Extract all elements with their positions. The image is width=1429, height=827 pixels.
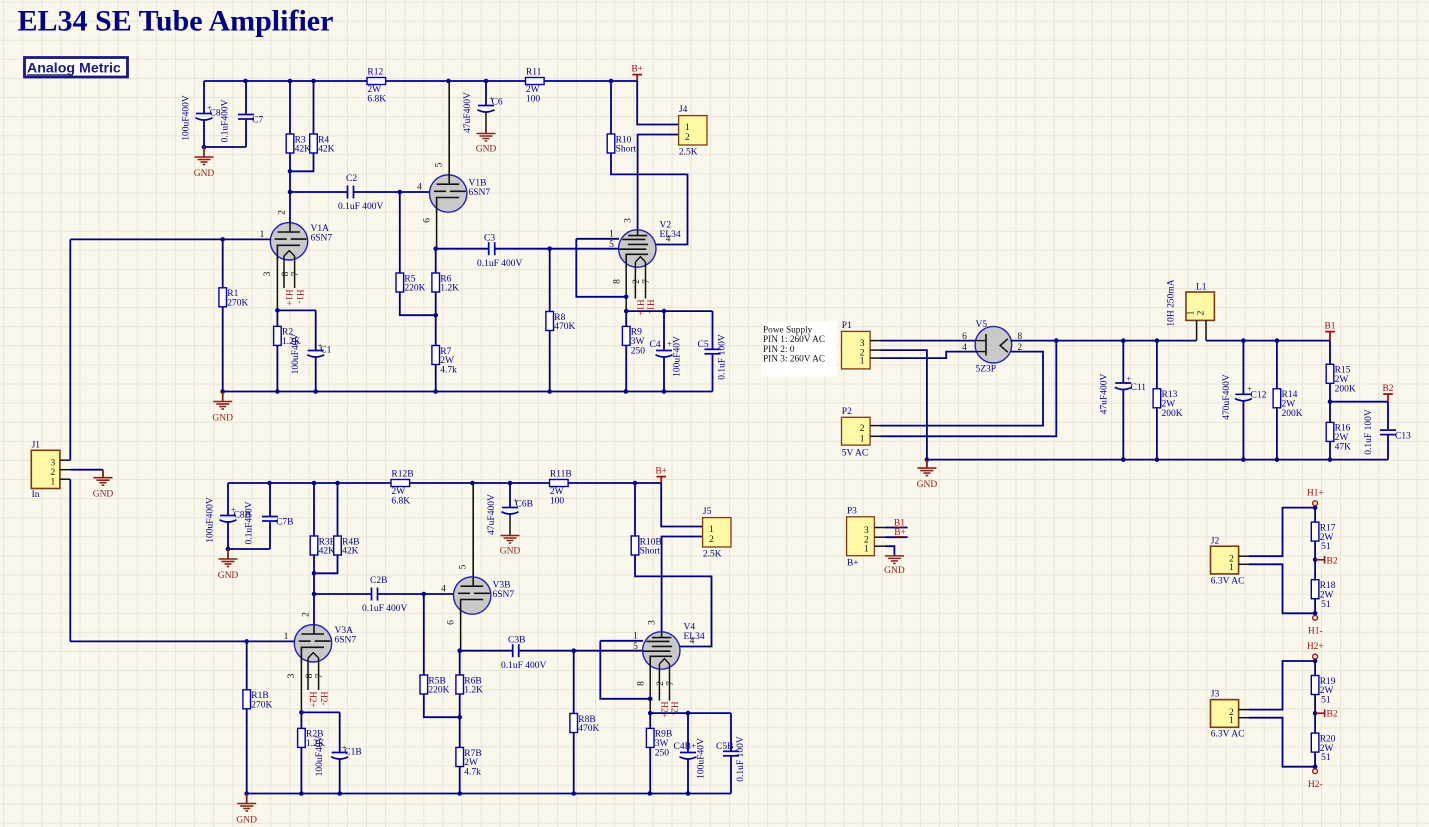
wire [423,594,425,675]
svg-text:+: + [691,741,696,751]
svg-text:C12: C12 [1251,391,1267,401]
svg-text:C6B: C6B [516,500,533,510]
wire [1276,341,1278,389]
svg-text:Short: Short [640,547,661,557]
V2 cathode pin 8 [625,265,627,312]
svg-text:C4B: C4B [674,742,691,752]
svg-text:100uF40V: 100uF40V [673,336,683,377]
svg-text:4: 4 [962,343,967,353]
junction [1121,338,1126,343]
svg-text:+: + [1247,384,1252,394]
resistor R2 [274,326,301,347]
svg-text:EL34 SE Tube Amplifier: EL34 SE Tube Amplifier [18,5,334,38]
junction [484,79,489,84]
junction [1328,457,1333,462]
V1A internals [275,223,307,260]
svg-text:6.3V AC: 6.3V AC [1211,576,1245,586]
wire [1329,383,1331,401]
svg-text:42K: 42K [342,547,359,557]
svg-text:7: 7 [642,279,652,284]
wire rail after choke [1206,340,1330,342]
svg-text:H1-: H1- [295,290,305,304]
resistor R16 [1326,422,1351,452]
power port B2 tap at J3 [1315,709,1338,719]
junction [275,389,280,394]
wire [337,483,339,536]
svg-text:+: + [207,103,212,113]
svg-text:3: 3 [860,339,865,349]
wire [435,249,437,273]
wire [573,651,575,714]
svg-text:200K: 200K [1282,409,1303,419]
wire [228,548,270,550]
wire B+ to J5 pin 1 [661,483,702,527]
svg-text:42K: 42K [319,547,336,557]
wire [519,650,643,652]
wire J5 pin 2 to V4 pin 3 [662,537,703,632]
svg-text:4: 4 [417,183,422,193]
wire [246,641,248,689]
junction [267,481,272,486]
svg-text:2: 2 [1017,343,1022,353]
wire [204,146,246,148]
svg-text:4: 4 [666,235,671,245]
svg-text:0.1uF 400V: 0.1uF 400V [362,604,408,614]
svg-text:3: 3 [287,673,297,678]
wire [203,81,205,113]
svg-text:J3: J3 [1211,690,1220,700]
svg-text:1.2K: 1.2K [440,284,459,294]
svg-text:GND: GND [218,571,239,581]
junction [571,648,576,653]
svg-text:51: 51 [1321,542,1331,552]
junction [433,313,438,318]
svg-text:8: 8 [305,673,315,678]
junction [1155,338,1160,343]
svg-text:4.7k: 4.7k [464,768,481,778]
J2 pin stubs [1239,556,1249,564]
Analog Metric box [25,58,128,78]
junction [457,791,462,796]
junction [337,791,342,796]
wire P1 pin 2 to ground rail [881,350,927,460]
svg-text:C5B: C5B [716,742,733,752]
svg-text:42K: 42K [318,145,335,155]
svg-text:C4: C4 [650,340,661,350]
wire [314,555,338,573]
tube V1B 6SN7 [430,175,491,212]
svg-text:100: 100 [526,95,541,105]
svg-text:8: 8 [637,681,647,686]
ground [476,134,497,155]
wire [354,191,430,193]
V2 internals [619,230,648,267]
junction [433,246,438,251]
V1A heater pins [284,256,295,288]
svg-text:220K: 220K [428,686,449,696]
resistor R8B [570,714,600,735]
svg-text:In: In [32,490,40,500]
svg-text:0.1uF 400V: 0.1uF 400V [338,202,384,212]
wire [1329,341,1331,365]
wire [424,694,460,717]
svg-text:200K: 200K [1335,384,1356,394]
junction [243,79,248,84]
capacitor C4 [656,311,673,391]
junction [1241,338,1246,343]
junction [925,457,930,462]
svg-text:Analog Metric: Analog Metric [27,61,121,77]
wire [1314,752,1316,767]
power port B2 [1382,384,1393,402]
junction [288,169,293,174]
wire J2 pin 1 to H1- [1249,564,1315,613]
svg-text:5V AC: 5V AC [842,449,869,459]
svg-text:220K: 220K [404,284,425,294]
resistor R8 [546,312,576,333]
wire [313,81,315,134]
svg-text:B+: B+ [655,466,667,476]
connector P2 [842,407,871,445]
junction [422,592,427,597]
wire J2 pin 2 to H1+ [1249,508,1315,557]
svg-text:1: 1 [685,123,690,133]
svg-text:J4: J4 [679,105,688,115]
V4 internals [643,632,672,669]
svg-text:2: 2 [685,133,690,143]
junction [288,79,293,84]
svg-text:C7B: C7B [276,518,293,528]
wire [435,365,437,392]
wire [1314,661,1316,676]
svg-text:C11: C11 [1131,383,1147,393]
svg-text:C1B: C1B [344,748,361,758]
tube V3B 6SN7 [454,577,515,614]
svg-text:0.1uF 400V: 0.1uF 400V [501,661,547,671]
junction [1155,457,1160,462]
svg-text:GND: GND [236,816,257,826]
wire [276,345,278,391]
svg-text:Powe Supply: Powe Supply [763,326,813,336]
wire [459,694,461,748]
wire [399,192,401,273]
capacitor C7 [238,81,254,147]
svg-text:4: 4 [441,585,446,595]
svg-text:B2: B2 [1327,710,1338,720]
L1 pin stubs [1197,320,1206,340]
svg-text:0.1uF 400V: 0.1uF 400V [477,259,523,269]
svg-text:5: 5 [434,162,444,167]
svg-text:3: 3 [51,459,56,469]
junction [1241,457,1246,462]
svg-text:100uF40V: 100uF40V [291,334,301,375]
ground [218,549,239,581]
wire [227,483,229,515]
svg-text:1: 1 [51,478,56,488]
resistor R7 [432,346,457,376]
capacitor C11 [1115,341,1132,460]
junction [624,295,629,300]
capacitor C1 [307,310,324,391]
svg-text:C13: C13 [1395,432,1411,442]
connector J2 [1211,536,1245,586]
V3A cathode pin 3 [300,660,302,712]
capacitor C8 [196,113,213,147]
svg-text:C5: C5 [698,340,709,350]
wire [509,483,511,507]
wire [460,650,513,652]
junction [1328,399,1333,404]
port H1- [1308,615,1323,636]
svg-text:P3: P3 [847,506,857,516]
V4 cathode pin 8 [649,667,651,714]
svg-text:5: 5 [458,564,468,569]
wire [1314,508,1316,522]
wire to B2 [1330,401,1388,403]
wire ground bus [247,793,731,795]
junction [202,145,207,150]
junction [275,308,280,313]
resistor R10B [631,536,662,557]
J3 pin stubs [1239,710,1249,718]
wire V4 pin 1 [600,640,643,642]
wire [495,248,619,250]
svg-text:2: 2 [277,210,287,215]
svg-text:H1+: H1+ [636,300,646,316]
junction [547,389,552,394]
svg-text:8: 8 [613,279,623,284]
resistor R9B [646,728,672,758]
svg-text:1: 1 [1229,563,1234,573]
resistor R5B [420,675,450,696]
svg-text:V5: V5 [976,320,988,330]
wire [222,307,224,392]
power port B+ [655,466,667,483]
wire [222,239,224,287]
junction [1313,611,1318,616]
port H2- [1308,769,1323,790]
svg-text:B+: B+ [631,64,643,74]
junction [547,246,552,251]
ground [236,794,257,826]
capacitor C5 [705,311,721,391]
junction [1275,457,1280,462]
svg-text:0.1uF400V: 0.1uF400V [245,501,255,544]
wire V5 pin 8 to rail [1011,340,1197,342]
svg-text:+: + [342,743,347,753]
svg-text:C2: C2 [346,174,357,184]
wire [313,483,315,536]
svg-text:47uF400V: 47uF400V [1100,374,1110,415]
wire [485,81,487,105]
junction [299,791,304,796]
svg-text:R11: R11 [526,67,542,77]
svg-text:100: 100 [550,497,565,507]
wire P1 pin 1 to V5 pin 4 [881,352,977,359]
wire J4 pin 2 to V2 pin 3 [638,135,679,230]
svg-text:J1: J1 [32,440,41,450]
wire [313,573,315,625]
wire [300,712,302,728]
svg-text:B2: B2 [1382,384,1393,394]
wire [289,153,291,171]
svg-text:+: + [318,341,323,351]
svg-text:GND: GND [194,169,215,179]
wire [313,555,315,573]
svg-text:6: 6 [962,332,967,342]
resistor R12B [391,469,414,506]
connector P1 [842,321,871,369]
capacitor C5B [723,713,739,793]
resistor R6B [456,675,483,696]
tube V2 EL34 [619,221,681,268]
junction [220,237,225,242]
junction [244,791,249,796]
svg-text:47K: 47K [1335,443,1352,453]
wire [1156,341,1158,389]
connector J5 [703,507,731,559]
svg-text:6.3V AC: 6.3V AC [1211,730,1245,740]
svg-text:B1: B1 [1324,321,1335,331]
wire [435,292,437,346]
wire [649,713,651,728]
junction [1313,764,1318,769]
svg-text:2: 2 [709,535,714,545]
svg-text:J2: J2 [1211,536,1220,546]
junction [1054,338,1059,343]
wire [1314,695,1316,714]
V3B internals [458,483,490,614]
svg-text:C2B: C2B [370,576,387,586]
svg-text:1: 1 [284,632,289,642]
junction [624,309,629,314]
svg-text:270K: 270K [251,701,272,711]
wire [549,331,551,392]
wire J3 pin 2 to H2+ [1249,661,1315,710]
wire input to V1A pin 1 [70,238,270,240]
junction [313,389,318,394]
svg-text:1: 1 [860,435,865,445]
wire [573,733,575,794]
svg-text:H1-: H1- [1308,627,1323,637]
svg-text:GND: GND [212,414,233,424]
svg-text:C3B: C3B [508,636,525,646]
svg-text:7: 7 [666,681,676,686]
junction [446,79,451,84]
wire P1 pin 3 to V5 pin 6 [881,340,976,342]
svg-text:PIN 3: 260V AC: PIN 3: 260V AC [763,355,825,365]
resistor R11B [550,469,572,506]
wire B+ to J4 pin 1 [637,81,678,125]
wire J1 pin 1 down to bottom channel [69,479,71,641]
junction [457,715,462,720]
svg-text:0.1uF 100V: 0.1uF 100V [1364,409,1374,455]
svg-text:100uF40V: 100uF40V [697,738,707,779]
resistor R3 [286,134,311,155]
svg-text:0.1uF400V: 0.1uF400V [221,99,231,142]
junction [244,639,249,644]
svg-text:3: 3 [647,620,657,625]
svg-text:100uF400V: 100uF400V [206,497,216,543]
wire [400,292,436,315]
ground [917,460,938,491]
wire P3 pin 3 net B1 [885,527,908,529]
svg-text:42K: 42K [295,145,312,155]
resistor R19 [1311,676,1335,706]
svg-text:6SN7: 6SN7 [469,188,491,198]
wire ground rail [927,459,1388,461]
svg-text:0.1uF 100V: 0.1uF 100V [718,334,728,380]
svg-text:H2+: H2+ [660,702,670,718]
wire input to V3A pin 1 [70,640,294,642]
svg-text:1: 1 [860,356,865,366]
J1 pin stubs [60,460,70,479]
svg-text:J5: J5 [703,507,712,517]
svg-text:5Z3P: 5Z3P [976,365,997,375]
wire [276,310,278,326]
capacitor C3B [501,636,547,672]
resistor R4 [310,134,335,155]
wire [290,153,314,171]
svg-text:2: 2 [1196,310,1206,315]
svg-text:1: 1 [709,525,714,535]
wire [301,711,339,713]
svg-text:R11B: R11B [550,469,572,479]
resistor R5 [396,273,426,294]
ground [93,470,114,500]
net label B+ [894,528,906,538]
wire J1 pin 2 to ground [70,469,103,471]
svg-text:C7: C7 [252,116,263,126]
ground [884,556,905,576]
wire [459,767,461,794]
wire [576,239,626,297]
junction [624,389,629,394]
svg-text:6.8K: 6.8K [391,497,410,507]
power port B1 [1324,321,1335,340]
svg-text:4.7k: 4.7k [440,366,457,376]
junction [1313,505,1318,510]
svg-text:3: 3 [864,526,869,536]
svg-text:H2-: H2- [319,692,329,706]
svg-text:+: + [1126,374,1131,384]
svg-text:51: 51 [1321,753,1331,763]
junction [312,481,317,486]
svg-text:0.1uF 100V: 0.1uF 100V [736,736,746,782]
resistor R6 [432,273,459,294]
port H2+ [1307,642,1324,659]
wire [1329,441,1331,459]
wire B+ bus [204,80,637,82]
resistor R15 [1326,364,1356,394]
svg-text:6SN7: 6SN7 [311,233,333,243]
resistor R7B [456,748,482,778]
junction [288,190,293,195]
svg-text:Short: Short [616,145,637,155]
svg-text:51: 51 [1321,600,1331,610]
tube V3A 6SN7 [294,625,356,662]
resistor R13 [1153,389,1183,419]
svg-text:10H 250mA: 10H 250mA [1167,279,1177,326]
junction [1275,338,1280,343]
resistor R12 [367,67,386,104]
resistor R1 [219,288,249,309]
wire J1 pin 3 up to top channel [69,239,71,460]
tube V5 5Z3P [975,320,1012,363]
wire [290,191,348,193]
wire [436,248,489,250]
svg-text:100uF40V: 100uF40V [315,736,325,777]
